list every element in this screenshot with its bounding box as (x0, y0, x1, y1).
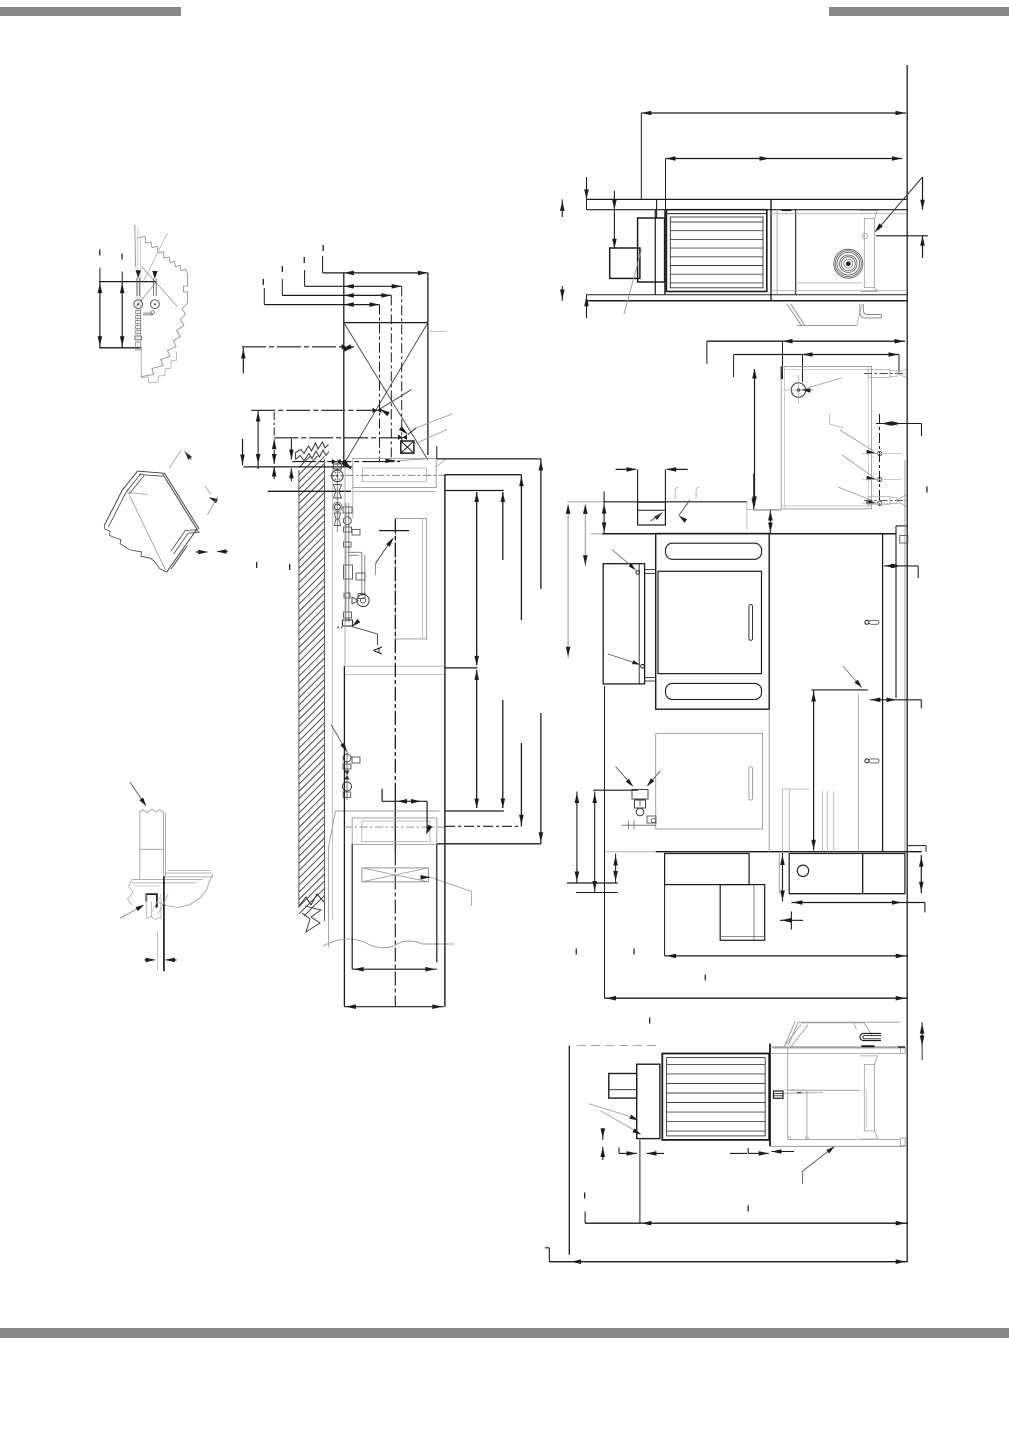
svg-text:A: A (371, 646, 385, 654)
